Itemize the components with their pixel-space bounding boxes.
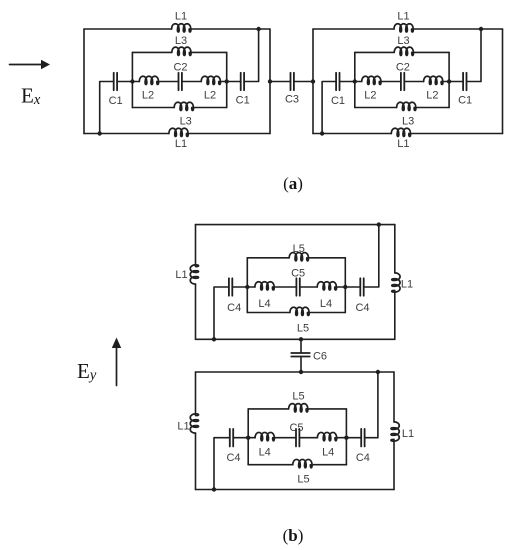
- wire: node to C4 right: [345, 286, 360, 288]
- inductor L3 bottom (a-left): [174, 102, 193, 110]
- svg-text:L1: L1: [402, 428, 414, 440]
- wire: L2 to C2: [159, 81, 179, 83]
- wire: inner rect bottom-right segment: [312, 464, 346, 466]
- node: middle-left (a-right): [353, 79, 357, 83]
- capacitor C6: [291, 353, 310, 357]
- svg-text:C1: C1: [109, 95, 123, 107]
- node: middle-right (b-top): [343, 285, 347, 289]
- wire: inner rect right edge: [345, 409, 347, 465]
- wire: outer top edge: [196, 224, 395, 226]
- wire: outer bottom-right segment: [188, 133, 270, 135]
- node: C3 right on block edge: [311, 79, 315, 83]
- svg-text:C4: C4: [355, 302, 369, 314]
- svg-text:L1: L1: [397, 138, 409, 150]
- wire: inner rect top-right segment: [413, 51, 449, 53]
- inductor L4 right (b-bottom): [317, 432, 336, 440]
- svg-text:C4: C4: [227, 302, 241, 314]
- wire: L4 to C5: [274, 437, 296, 439]
- wire: outer bottom-left segment: [313, 133, 391, 135]
- wire: inner rect right edge: [344, 258, 346, 313]
- svg-text:C1: C1: [458, 95, 472, 107]
- wire: outer left edge: [83, 29, 85, 134]
- wire: C6 lower lead: [300, 357, 302, 373]
- wire: right feed from middle line to top: [364, 225, 379, 287]
- capacitor C4 right (b-top): [360, 278, 363, 296]
- svg-text:L4: L4: [259, 447, 271, 459]
- svg-text:L5: L5: [297, 474, 309, 486]
- svg-text:L1: L1: [175, 138, 187, 150]
- svg-text:L2: L2: [142, 90, 154, 102]
- inductor L3 top (a-right): [394, 47, 413, 55]
- svg-text:C6: C6: [313, 351, 327, 363]
- wire: outer top edge: [196, 371, 395, 373]
- svg-text:L4: L4: [320, 298, 332, 310]
- svg-text:C4: C4: [226, 452, 240, 464]
- wire: outer left edge lower: [195, 284, 197, 339]
- wire: inner rect top-right segment: [308, 257, 345, 259]
- wire: inner rect right edge: [226, 52, 228, 107]
- svg-text:C2: C2: [396, 62, 410, 74]
- capacitor C1 left (a-left): [114, 73, 117, 91]
- capacitor C4 left (b-top): [229, 278, 232, 296]
- svg-text:L2: L2: [426, 90, 438, 102]
- capacitor C4 left (b-bottom): [230, 429, 233, 447]
- wire: C5 to L4 right: [299, 437, 317, 439]
- wire: inner rect top-left segment: [248, 408, 288, 410]
- node: top tap (b-top): [377, 222, 381, 226]
- node: bottom tap (a-right): [320, 131, 324, 135]
- inductor L1 top (a-right): [394, 24, 413, 32]
- svg-text:L5: L5: [292, 391, 304, 403]
- wire: outer bottom edge: [196, 489, 395, 491]
- wire: inner rect bottom-right segment: [309, 312, 345, 314]
- wire: outer top-right segment: [191, 28, 270, 30]
- node: top tap (a-right): [479, 27, 483, 31]
- wire: outer top-left segment: [84, 28, 172, 30]
- wire: inner rect bottom-right segment: [193, 107, 226, 109]
- wire: left feed from bottom to middle line: [214, 287, 229, 339]
- wire: L2 to C2: [381, 81, 401, 83]
- wire: outer right edge: [502, 29, 504, 134]
- wire: node to L4 left: [248, 437, 255, 439]
- wire: inner rect top-left segment: [355, 51, 394, 53]
- inductor L4 right (b-top): [317, 282, 336, 290]
- wire: C1 to left node: [117, 81, 132, 83]
- wire: C5 to L4 right: [300, 286, 317, 288]
- svg-text:L5: L5: [297, 323, 309, 335]
- svg-text:C1: C1: [236, 95, 250, 107]
- svg-text:C4: C4: [356, 452, 370, 464]
- node: middle-right (a-right): [447, 79, 451, 83]
- wire: outer left edge: [312, 29, 314, 134]
- wire: C3 right lead: [294, 81, 313, 83]
- svg-text:L2: L2: [364, 90, 376, 102]
- wire: node to C1 right: [227, 81, 241, 83]
- wire: C4 to left node: [232, 286, 247, 288]
- inductor L3 top (a-left): [172, 47, 191, 55]
- node: top tap (a-left): [256, 27, 260, 31]
- inductor L2 right (a-right): [424, 76, 443, 84]
- svg-text:L2: L2: [204, 90, 216, 102]
- svg-text:L3: L3: [175, 35, 187, 47]
- inductor L1 bottom (a-right): [391, 128, 410, 136]
- svg-text:L4: L4: [322, 447, 334, 459]
- wire: L4 to right node: [337, 437, 347, 439]
- svg-text:(b): (b): [283, 526, 304, 545]
- inductor L2 right (a-left): [201, 76, 220, 84]
- wire: L2 to right node: [220, 81, 226, 83]
- wire: node to L2 left: [132, 81, 139, 83]
- wire: C1 to left node: [340, 81, 355, 83]
- node: C3 left on block edge: [268, 79, 272, 83]
- wire: L4 to right node: [336, 286, 345, 288]
- Ex excitation arrow: [10, 60, 51, 70]
- wire: C2 to L2 right: [182, 81, 201, 83]
- wire: right feed from middle line to top: [365, 372, 378, 438]
- capacitor C3: [291, 73, 294, 91]
- svg-text:L1: L1: [177, 421, 189, 433]
- capacitor C1 right (a-left): [241, 73, 244, 91]
- wire: outer left edge upper: [195, 225, 197, 265]
- wire: outer bottom edge: [196, 338, 395, 340]
- wire: node to C1 right: [449, 81, 463, 83]
- svg-text:C5: C5: [289, 422, 303, 434]
- svg-text:(a): (a): [283, 174, 303, 193]
- wire: outer right edge upper: [393, 372, 395, 422]
- wire: C2 to L2 right: [404, 81, 423, 83]
- capacitor C4 right (b-bottom): [361, 429, 364, 447]
- wire: node to L2 left: [355, 81, 362, 83]
- inductor L1 right (b-bottom): [391, 422, 399, 441]
- wire: outer left edge upper: [195, 372, 197, 414]
- wire: C3 left lead: [270, 81, 291, 83]
- wire: left feed from bottom to middle line: [322, 82, 336, 134]
- wire: inner rect bottom-left segment: [247, 312, 290, 314]
- inductor L5 top (b-bottom): [289, 404, 308, 412]
- wire: outer bottom-right segment: [411, 133, 503, 135]
- wire: C6 upper lead: [300, 339, 302, 353]
- node: bottom-left tap (b-bottom): [212, 487, 216, 491]
- svg-text:L4: L4: [258, 298, 270, 310]
- inductor L2 left (a-left): [139, 76, 158, 84]
- capacitor C2 (a-left): [179, 73, 182, 91]
- inductor L1 bottom (a-left): [169, 128, 188, 136]
- svg-text:L3: L3: [397, 35, 409, 47]
- wire: outer right edge lower: [394, 292, 396, 339]
- wire: left feed from bottom to middle line: [214, 438, 230, 490]
- capacitor C1 left (a-right): [336, 73, 339, 91]
- wire: outer right edge: [269, 29, 271, 134]
- inductor L4 left (b-top): [255, 282, 274, 290]
- wire: inner rect top-right segment: [308, 408, 347, 410]
- inductor L2 left (a-right): [362, 76, 381, 84]
- inductor L5 top (b-top): [289, 253, 308, 261]
- capacitor C5 (b-bottom): [296, 429, 299, 447]
- wire: inner rect top-left segment: [247, 257, 289, 259]
- wire: L2 to right node: [443, 81, 449, 83]
- wire: right feed from middle line to top: [467, 29, 482, 82]
- wire: inner rect top-left segment: [132, 51, 171, 53]
- inductor L4 left (b-bottom): [255, 432, 274, 440]
- wire: inner rect bottom-right segment: [416, 107, 449, 109]
- wire: node to C4 right: [346, 437, 361, 439]
- capacitor C2 (a-right): [401, 73, 404, 91]
- capacitor C5 (b-top): [296, 278, 299, 296]
- wire: inner rect bottom-left segment: [355, 107, 397, 109]
- wire: outer bottom-left segment: [84, 133, 169, 135]
- svg-text:C3: C3: [285, 93, 299, 105]
- wire: outer top-left segment: [313, 28, 394, 30]
- svg-text:C2: C2: [173, 62, 187, 74]
- svg-text:C5: C5: [291, 268, 305, 280]
- wire: outer right edge lower: [393, 441, 395, 489]
- wire: inner rect bottom-left segment: [132, 107, 174, 109]
- node: middle-right (b-bottom): [344, 436, 348, 440]
- svg-text:L1: L1: [397, 10, 409, 22]
- node: bottom-left tap (b-top): [212, 337, 216, 341]
- svg-text:L1: L1: [175, 269, 187, 281]
- inductor L1 right (b-top): [392, 273, 400, 292]
- wire: C4 to left node: [233, 437, 248, 439]
- wire: inner rect bottom-left segment: [248, 464, 293, 466]
- node: C6 tap on top edge (b-bottom): [299, 370, 303, 374]
- wire: inner rect left edge: [131, 52, 133, 107]
- wire: L4 to C5: [274, 286, 296, 288]
- inductor L5 bottom (b-bottom): [293, 459, 312, 467]
- node: middle-left (b-bottom): [246, 436, 250, 440]
- node: bottom tap (a-left): [98, 131, 102, 135]
- wire: inner rect left edge: [246, 258, 248, 313]
- inductor L1 left (b-top): [190, 265, 198, 284]
- node: middle-left (a-left): [130, 79, 134, 83]
- inductor L3 bottom (a-right): [397, 102, 416, 110]
- wire: node to L4 left: [247, 286, 255, 288]
- wire: outer right edge upper: [394, 225, 396, 273]
- wire: left feed from bottom to middle line: [100, 82, 114, 134]
- wire: inner rect left edge: [354, 52, 356, 107]
- wire: inner rect top-right segment: [191, 51, 227, 53]
- svg-text:L1: L1: [175, 10, 187, 22]
- svg-text:C1: C1: [331, 95, 345, 107]
- inductor L1 top (a-left): [172, 24, 191, 32]
- node: top tap (b-bottom): [376, 370, 380, 374]
- node: middle-right (a-left): [225, 79, 229, 83]
- wire: inner rect left edge: [247, 409, 249, 465]
- inductor L5 bottom (b-top): [290, 307, 309, 315]
- node: C6 tap on bottom edge (b-top): [299, 337, 303, 341]
- svg-text:L1: L1: [401, 279, 413, 291]
- capacitor C1 right (a-right): [463, 73, 466, 91]
- inductor L1 left (b-bottom): [190, 414, 198, 433]
- svg-text:L3: L3: [180, 116, 192, 128]
- wire: outer left edge lower: [195, 433, 197, 489]
- Ey excitation arrow: [112, 338, 121, 386]
- wire: outer top-right segment: [413, 28, 502, 30]
- wire: inner rect right edge: [448, 52, 450, 107]
- svg-text:L3: L3: [402, 116, 414, 128]
- wire: right feed from middle line to top: [244, 29, 259, 82]
- svg-text:L5: L5: [293, 243, 305, 255]
- node: middle-left (b-top): [245, 285, 249, 289]
